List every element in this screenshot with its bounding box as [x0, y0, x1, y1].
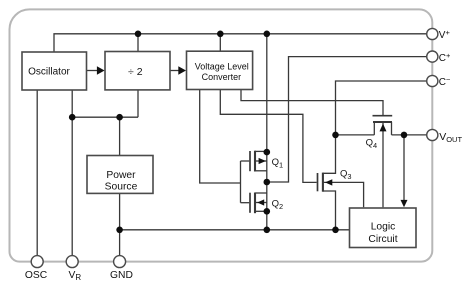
- svg-text:Voltage Level: Voltage Level: [195, 62, 249, 72]
- svg-text:Circuit: Circuit: [368, 234, 397, 245]
- svg-text:Oscillator: Oscillator: [28, 67, 70, 78]
- svg-text:Power: Power: [106, 170, 136, 181]
- svg-text:OSC: OSC: [25, 270, 48, 281]
- svg-text:Converter: Converter: [202, 72, 242, 82]
- svg-text:GND: GND: [110, 270, 133, 281]
- svg-text:Source: Source: [105, 182, 138, 193]
- svg-text:Logic: Logic: [371, 222, 396, 233]
- svg-text:÷ 2: ÷ 2: [128, 66, 143, 78]
